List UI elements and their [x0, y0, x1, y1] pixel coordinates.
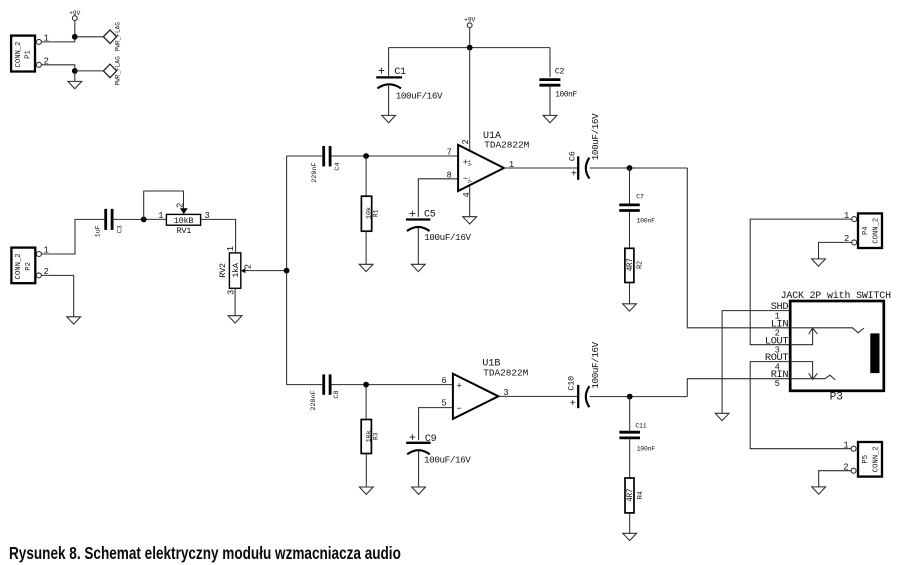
svg-text:C3: C3 — [117, 225, 125, 233]
svg-text:CONN_2: CONN_2 — [873, 218, 881, 244]
svg-text:8: 8 — [447, 170, 452, 180]
jack sleeve bar — [870, 333, 879, 373]
svg-text:+: + — [571, 170, 577, 181]
wire rail to C1 — [388, 48, 390, 77]
ground (SHD) — [715, 413, 729, 420]
power +9V (rail) — [464, 16, 475, 47]
wire bus to C8 — [287, 384, 323, 386]
svg-text:JACK 2P with SWITCH: JACK 2P with SWITCH — [781, 290, 892, 301]
svg-text:2: 2 — [176, 203, 186, 208]
connector P5 — [843, 440, 882, 476]
ground (C5) — [411, 264, 425, 271]
svg-text:10kB: 10kB — [174, 216, 194, 226]
node R1 junction — [363, 153, 369, 159]
capacitor C9 100uF/16V — [406, 432, 471, 466]
svg-text:P1: P1 — [25, 50, 33, 59]
jack internal LOUT arrow — [790, 328, 817, 345]
svg-text:C10: C10 — [566, 376, 576, 391]
svg-text:2: 2 — [243, 264, 253, 269]
ground (C1) — [382, 115, 396, 122]
wire RV2 pin3 to ground — [234, 288, 236, 315]
wire C10 to RIN corner — [590, 396, 688, 398]
svg-text:+9V: +9V — [464, 16, 475, 23]
svg-text:4: 4 — [462, 192, 472, 197]
jack P3 JACK_2P_with_SWITCH — [765, 290, 891, 404]
wire junction to R1 — [365, 156, 367, 196]
wire C2 to ground — [549, 87, 551, 116]
svg-text:P5: P5 — [862, 455, 870, 464]
node C6/C7 junction — [627, 165, 633, 171]
node +9V junction — [72, 34, 78, 40]
svg-text:+9V: +9V — [69, 10, 80, 17]
node rail junction — [467, 45, 473, 51]
svg-text:5: 5 — [441, 399, 446, 409]
potentiometer RV2 1kA — [218, 246, 254, 295]
svg-text:100uF/16V: 100uF/16V — [590, 113, 601, 160]
wire rail to C2 — [549, 48, 551, 77]
capacitor C4 220nF — [311, 146, 342, 183]
wire RV2 wiper to bus — [245, 270, 287, 272]
capacitor C3 1uF — [94, 209, 124, 238]
wire C7 to R2 — [629, 212, 631, 249]
power +9V (P1) — [69, 10, 80, 37]
svg-text:P2: P2 — [25, 262, 33, 271]
wire up to RIN — [687, 379, 790, 397]
svg-text:Rysunek 8. Schemat elektryczny: Rysunek 8. Schemat elektryczny modułu wz… — [9, 544, 401, 563]
svg-text:CONN_2: CONN_2 — [873, 446, 881, 472]
PWR_FLAG flag 1 — [103, 22, 121, 52]
svg-text:220nF: 220nF — [311, 162, 319, 182]
svg-text:C5: C5 — [424, 210, 436, 221]
svg-text:1uF: 1uF — [94, 225, 102, 237]
resistor R3 10k — [361, 420, 379, 454]
ground (C9) — [412, 487, 426, 494]
wire P4 pin2 to ground — [819, 242, 852, 258]
op-amp U1B TDA2822M — [441, 359, 528, 419]
wire R4 to ground — [629, 513, 631, 533]
svg-text:+: + — [409, 208, 416, 221]
ground (P1 pin2) — [68, 71, 82, 89]
wire junction to C11 — [629, 397, 631, 432]
ground (C2) — [543, 115, 557, 122]
capacitor C7 100nF — [619, 193, 655, 224]
node C3/RV1 junction — [141, 217, 147, 223]
wire U1A pin4 to ground — [469, 185, 471, 216]
svg-text:C11: C11 — [635, 423, 646, 430]
wire C6 to LIN corner — [590, 167, 688, 169]
svg-text:C8: C8 — [333, 390, 341, 398]
svg-text:RV1: RV1 — [177, 226, 192, 236]
svg-text:100uF/16V: 100uF/16V — [424, 232, 471, 243]
wire RV1 wiper feedback — [144, 191, 184, 219]
wire U1B pin5 to C9 — [419, 408, 453, 441]
connector P1 — [11, 34, 49, 72]
svg-text:1kA: 1kA — [231, 262, 241, 278]
svg-text:C6: C6 — [568, 151, 578, 161]
svg-text:+: + — [457, 381, 462, 391]
svg-text:R3: R3 — [372, 432, 379, 440]
resistor R2 4R7 — [625, 248, 645, 282]
wire C4 to U1A pin7 — [331, 155, 458, 157]
svg-text:R1: R1 — [373, 209, 380, 217]
wire C8 to U1B pin6 — [331, 384, 453, 386]
wire P4 pin1 to LOUT — [750, 219, 852, 345]
wire U1A pin8 to C5 — [418, 179, 458, 217]
wire bus to C4 — [287, 155, 323, 157]
svg-text:1: 1 — [844, 211, 849, 221]
svg-text:P4: P4 — [862, 226, 870, 235]
ground (R4) — [623, 533, 637, 540]
connector P4 — [844, 211, 882, 248]
ground (U1A V-) — [463, 217, 477, 224]
svg-text:C1: C1 — [394, 67, 406, 78]
ground (P2 pin2) — [67, 317, 81, 324]
svg-text:+: + — [409, 432, 416, 445]
wire C3 to RV1 pin1 — [113, 218, 166, 220]
capacitor C8 220nF — [310, 374, 341, 410]
wire signal bus vertical — [286, 156, 288, 385]
svg-text:1: 1 — [226, 246, 236, 251]
svg-text:+: + — [378, 65, 385, 78]
wire C1 to ground — [388, 85, 390, 116]
svg-text:100nF: 100nF — [637, 217, 656, 224]
svg-text:C2: C2 — [555, 68, 565, 77]
svg-text:C9: C9 — [425, 434, 437, 445]
wire down to LIN — [687, 168, 790, 328]
wire RV1 pin3 to RV2 pin1 — [201, 219, 236, 252]
svg-text:R2: R2 — [637, 261, 645, 269]
svg-text:1: 1 — [158, 211, 163, 221]
wire C11 to R4 — [629, 439, 631, 478]
wire SHD to ground — [722, 311, 790, 414]
svg-text:1: 1 — [843, 440, 848, 450]
ground (R1) — [359, 264, 373, 271]
wire +9V rail — [389, 47, 550, 49]
jack internal RIN contact — [790, 375, 835, 380]
wire P2 pin1 to C3 — [41, 219, 104, 254]
wire P5 pin2 to ground — [819, 471, 851, 487]
capacitor C5 100uF/16V — [406, 208, 472, 243]
svg-text:100nF: 100nF — [637, 446, 656, 453]
wire P2 pin2 to ground — [41, 275, 73, 316]
ground (R3) — [359, 487, 373, 494]
wire C9 to ground — [418, 451, 420, 487]
capacitor C1 100uF/16V — [376, 65, 443, 101]
svg-text:100uF/16V: 100uF/16V — [424, 454, 471, 465]
connector P2 — [11, 246, 48, 284]
ground (P5) — [812, 487, 826, 494]
svg-text:2: 2 — [461, 139, 471, 144]
svg-text:C4: C4 — [334, 162, 342, 170]
PWR_FLAG flag 2 — [103, 56, 121, 86]
capacitor C10 100uF/16V — [566, 341, 601, 409]
svg-text:PWR_FLAG: PWR_FLAG — [115, 56, 122, 86]
node bus/wiper junction — [284, 268, 290, 274]
svg-text:4R7: 4R7 — [627, 258, 635, 272]
svg-text:5: 5 — [775, 379, 780, 389]
wire P1 pin2 to ground node — [41, 65, 74, 71]
wire U1A output to C6 — [504, 167, 577, 169]
svg-text:TDA2822M: TDA2822M — [484, 140, 529, 151]
wire U1B output to C10 — [498, 395, 577, 397]
capacitor C2 100nF — [539, 68, 577, 100]
svg-text:100uF/16V: 100uF/16V — [590, 341, 601, 388]
svg-text:R4: R4 — [637, 491, 645, 499]
ground (P4) — [812, 259, 826, 266]
jack internal LIN contact — [790, 328, 864, 333]
wire R2 to ground — [629, 283, 631, 304]
node GND junction (P1) — [72, 68, 78, 74]
wire R3 to ground — [365, 454, 367, 487]
svg-text:100nF: 100nF — [555, 92, 577, 100]
svg-text:PWR_FLAG: PWR_FLAG — [115, 22, 122, 52]
wire P1 pin1 to +9V node — [41, 37, 74, 42]
svg-text:6: 6 — [441, 376, 446, 386]
svg-text:V+: V+ — [467, 160, 473, 166]
node C10/C11 junction — [627, 394, 633, 400]
svg-text:4R7: 4R7 — [627, 488, 635, 502]
wire to PWR_FLAG 2 — [75, 70, 104, 72]
wire junction to C7 — [629, 168, 631, 204]
svg-text:7: 7 — [447, 148, 452, 158]
ground (RV2) — [228, 316, 242, 323]
op-amp U1A TDA2822M — [447, 131, 530, 198]
ground (R2) — [623, 304, 637, 311]
capacitor C11 100nF — [619, 423, 655, 453]
wire junction to R3 — [365, 385, 367, 420]
svg-text:CONN_2: CONN_2 — [15, 253, 23, 279]
resistor R4 4R7 — [625, 478, 645, 513]
wire to PWR_FLAG 1 — [75, 36, 104, 38]
resistor R1 10k — [361, 196, 379, 231]
wire ROUT to P5 pin1 — [750, 362, 851, 449]
svg-text:P3: P3 — [830, 392, 843, 404]
svg-text:220nF: 220nF — [310, 390, 318, 410]
svg-text:C7: C7 — [636, 193, 644, 200]
svg-text:RV2: RV2 — [218, 263, 228, 278]
svg-text:+: + — [570, 399, 576, 410]
wire C5 to ground — [417, 227, 419, 264]
svg-text:100uF/16V: 100uF/16V — [396, 90, 443, 101]
wire rail to U1A V+ pin 2 — [469, 48, 471, 151]
node R3 junction — [363, 382, 369, 388]
potentiometer RV1 10kB — [158, 203, 210, 236]
svg-text:TDA2822M: TDA2822M — [483, 368, 528, 379]
capacitor C6 100uF/16V — [568, 113, 601, 181]
svg-text:−: − — [457, 404, 462, 414]
jack internal ROUT arrow — [790, 362, 817, 380]
svg-text:V−: V− — [467, 177, 473, 183]
svg-text:CONN_2: CONN_2 — [15, 42, 23, 68]
wire R1 to ground — [365, 231, 367, 264]
